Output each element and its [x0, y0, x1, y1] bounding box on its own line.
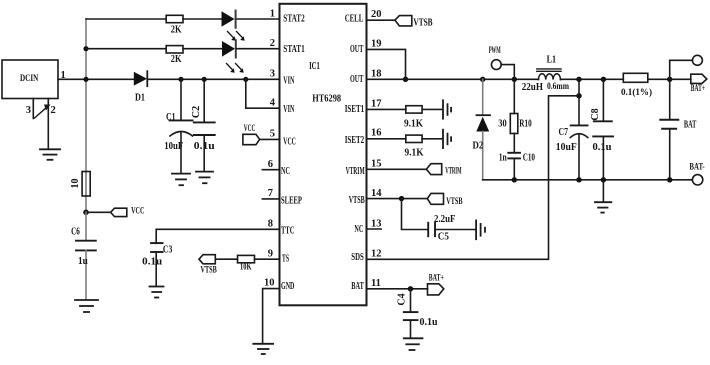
svg-text:SDS: SDS: [351, 252, 364, 263]
port (BAT+ terminal circle): [692, 55, 702, 65]
ground under DCIN pin2: [40, 149, 60, 160]
wire LED1 to IC pin1: [237, 18, 280, 20]
pin 6 stub: [262, 169, 279, 171]
resistor R6 9.1K: [406, 135, 422, 142]
svg-text:10: 10: [70, 179, 81, 189]
diode D1: [134, 71, 148, 86]
svg-text:VCC: VCC: [283, 136, 296, 147]
svg-text:3: 3: [26, 105, 31, 116]
wire pin17 ISET1 to R5: [367, 108, 406, 110]
svg-text:CELL: CELL: [345, 13, 364, 24]
svg-text:VTSB: VTSB: [446, 197, 463, 207]
svg-text:12: 12: [371, 249, 382, 260]
power flag VCC (pin5): [243, 134, 260, 144]
svg-text:BAT: BAT: [684, 119, 697, 130]
svg-text:2K: 2K: [171, 24, 182, 35]
power flag VTSB (pin14): [427, 193, 443, 204]
svg-text:30: 30: [498, 118, 506, 129]
svg-text:8: 8: [268, 219, 273, 230]
svg-text:BAT+: BAT+: [691, 84, 705, 94]
wire bottom rail: [483, 179, 693, 181]
capacitor C1 10uF: [170, 79, 193, 173]
svg-text:0.1u: 0.1u: [420, 317, 438, 328]
ground rotated (ISET1): [443, 100, 451, 118]
svg-text:10: 10: [264, 278, 275, 289]
svg-text:R10: R10: [519, 119, 531, 130]
power flag VTSB (TS): [199, 255, 215, 264]
ground under C6: [75, 300, 98, 312]
wire pin8 TTC to C3: [156, 229, 279, 242]
svg-text:C6: C6: [71, 226, 80, 237]
LED D4 (STAT1): [222, 40, 244, 73]
wire D1 cathode to IC pin3: [148, 78, 280, 80]
wire row1 to R1: [86, 18, 166, 20]
svg-text:20: 20: [371, 9, 382, 20]
wire pin12 SDS feedback: [367, 96, 580, 259]
node pin19/rail: [403, 77, 408, 82]
port PWM: [491, 60, 501, 70]
ground under C3: [150, 287, 164, 298]
svg-text:VTSB: VTSB: [201, 266, 218, 276]
node C8 tap: [601, 77, 606, 82]
node D2 tap: [480, 77, 485, 82]
power flag BAT+ (pin11): [428, 284, 444, 295]
svg-text:VTRIM: VTRIM: [346, 166, 365, 177]
battery BAT: [660, 79, 678, 180]
svg-text:9: 9: [268, 249, 273, 260]
wire R1 to LED1: [183, 18, 222, 20]
svg-text:TTC: TTC: [281, 225, 294, 236]
svg-text:22uH: 22uH: [522, 81, 544, 93]
power flag VTRIM: [426, 164, 441, 175]
capacitor C3 0.1u: [151, 243, 163, 286]
svg-text:NC: NC: [354, 224, 363, 235]
ground on bottom rail: [595, 180, 611, 213]
ground under C2: [196, 172, 213, 184]
svg-text:0.1u: 0.1u: [142, 256, 162, 267]
pin 7 stub: [262, 198, 279, 200]
svg-text:11: 11: [371, 278, 381, 289]
wire pin16 ISET2 to R6: [367, 138, 406, 140]
wire L1 to R11: [561, 78, 624, 80]
svg-text:2K: 2K: [171, 54, 182, 65]
svg-text:C2: C2: [191, 106, 202, 118]
diode D2: [476, 79, 490, 180]
svg-text:VIN: VIN: [283, 75, 295, 86]
port BAT- terminal circle: [692, 175, 702, 185]
node battery/rail: [667, 177, 672, 182]
svg-text:C10: C10: [523, 153, 535, 164]
svg-text:9.1K: 9.1K: [404, 118, 424, 129]
node C2 tap: [202, 77, 207, 82]
power flag BAT+ (right): [691, 74, 707, 83]
wire row2 to R2: [86, 48, 166, 50]
wire pin19 OUT down to rail: [367, 49, 406, 79]
resistor R10 30 (vertical): [510, 79, 518, 152]
IC U1 HT6298 body: [280, 4, 367, 306]
svg-text:BAT-: BAT-: [689, 162, 704, 172]
node C1 tap: [178, 77, 183, 82]
svg-text:6: 6: [268, 159, 273, 170]
connector J1 DCIN box: [2, 60, 58, 99]
svg-text:L1: L1: [547, 55, 557, 66]
svg-text:HT6298: HT6298: [312, 93, 341, 104]
capacitor C7 10uF: [570, 79, 588, 180]
node C5 tap: [399, 196, 404, 201]
wire pin14 VTSB to flag: [367, 198, 428, 200]
resistor R1 2K: [166, 15, 183, 22]
wire PWM to rail: [501, 65, 514, 80]
svg-text:18: 18: [371, 69, 382, 80]
svg-text:VTSB: VTSB: [349, 195, 365, 206]
wire R6 to ground (rotated): [422, 138, 442, 140]
wire LED2 to IC pin2: [237, 48, 280, 50]
capacitor C8 0.1u: [593, 79, 613, 180]
wire R4 to VTSB flag: [215, 258, 237, 260]
ground rotated (ISET2): [443, 130, 451, 148]
svg-text:19: 19: [371, 39, 382, 50]
wire node down to C5: [402, 199, 428, 230]
wire R2 to LED2: [183, 48, 222, 50]
node BAT+ branch: [667, 77, 672, 82]
svg-text:15: 15: [371, 158, 382, 169]
node C8/rail: [601, 177, 606, 182]
wire R11 to BAT+ node: [648, 78, 670, 80]
power flag VCC (left): [111, 208, 127, 216]
svg-text:STAT1: STAT1: [283, 44, 304, 55]
wire node up to port: [670, 60, 693, 79]
svg-text:VTSB: VTSB: [413, 17, 432, 28]
svg-text:D2: D2: [473, 140, 484, 151]
svg-text:ISET2: ISET2: [345, 135, 365, 146]
svg-text:ISET1: ISET1: [345, 104, 365, 115]
svg-text:9.1K: 9.1K: [405, 147, 425, 158]
svg-text:0.1(1%): 0.1(1%): [621, 87, 652, 98]
node row2 junction: [83, 46, 88, 51]
svg-text:DCIN: DCIN: [20, 74, 38, 84]
wire pin15 VTRIM to flag: [367, 168, 427, 170]
svg-text:OUT: OUT: [350, 74, 364, 85]
node SDS joint: [576, 93, 581, 98]
svg-text:10uF: 10uF: [556, 142, 577, 153]
svg-text:5: 5: [270, 128, 275, 139]
svg-text:16: 16: [371, 128, 382, 139]
svg-text:3: 3: [270, 69, 275, 80]
ground rotated (C5): [476, 220, 485, 239]
wire vertical bus x86 (rows 1-3 to VCC node): [85, 19, 87, 212]
svg-text:VCC: VCC: [131, 206, 144, 216]
svg-text:D1: D1: [135, 92, 145, 103]
wire DCIN pin1 to D1 anode: [58, 78, 134, 80]
svg-text:OUT: OUT: [350, 44, 364, 55]
wire R5 to ground (rotated): [422, 108, 442, 110]
svg-text:C1: C1: [166, 112, 176, 123]
switch arrow (jack contact): [35, 105, 51, 119]
svg-text:1n: 1n: [499, 153, 507, 164]
svg-text:1u: 1u: [78, 256, 88, 267]
capacitor C10 1n: [508, 153, 520, 180]
wire pin18 OUT rail to L1: [367, 78, 539, 80]
ground under C4: [404, 338, 423, 350]
svg-text:GND: GND: [281, 281, 294, 292]
LED D3 (STAT2): [222, 11, 245, 41]
node C10/rail: [512, 177, 517, 182]
svg-text:PWM: PWM: [489, 46, 501, 56]
wire pin10 GND to ground: [263, 289, 280, 343]
svg-text:0.6mm: 0.6mm: [547, 82, 569, 92]
wire pin9 TS to R4: [255, 258, 280, 260]
svg-text:BAT+: BAT+: [429, 274, 444, 284]
svg-text:2.2uF: 2.2uF: [434, 214, 456, 225]
capacitor C4 0.1u: [404, 289, 418, 338]
svg-text:VIN: VIN: [283, 104, 295, 115]
svg-text:1: 1: [270, 9, 275, 20]
wire pin20 CELL to flag: [367, 19, 395, 21]
svg-text:C5: C5: [438, 231, 449, 242]
svg-text:10K: 10K: [240, 263, 252, 273]
resistor R11 0.1(1%): [623, 73, 648, 82]
inductor L1: [537, 69, 561, 80]
node VCC junction: [83, 210, 89, 216]
pin 2 stub (DCIN jack): [47, 99, 49, 149]
ground under C1: [172, 174, 190, 186]
pin 3 stub (DCIN jack): [32, 99, 34, 119]
wire pin5 VCC flag: [260, 138, 280, 140]
node C4 tap: [408, 286, 413, 291]
svg-text:0.1u: 0.1u: [593, 142, 612, 153]
resistor R4 10K: [238, 255, 255, 262]
power flag VTSB (pin20): [395, 16, 412, 26]
svg-text:VCC: VCC: [244, 124, 256, 134]
svg-text:C7: C7: [559, 127, 569, 138]
svg-text:10uF: 10uF: [164, 141, 183, 152]
svg-text:2: 2: [270, 38, 275, 49]
wire to IC pin4: [246, 79, 280, 108]
resistor R5 9.1K: [406, 106, 422, 113]
svg-text:IC1: IC1: [309, 61, 320, 72]
svg-text:13: 13: [371, 218, 382, 229]
wire node to BAT+ flag: [670, 78, 691, 80]
svg-text:14: 14: [371, 188, 382, 199]
svg-text:TS: TS: [282, 253, 289, 264]
svg-text:BAT: BAT: [351, 281, 364, 292]
svg-text:C8: C8: [590, 108, 601, 120]
svg-text:STAT2: STAT2: [283, 13, 304, 24]
resistor R2 2K: [166, 46, 183, 53]
wire C5 to ground (rotated): [435, 229, 475, 231]
resistor R3 10 (vertical): [82, 172, 90, 197]
svg-text:SLEEP: SLEEP: [281, 196, 302, 207]
capacitor C2 0.1u: [194, 79, 215, 171]
node PWM/R10 tap: [512, 77, 517, 82]
svg-text:C4: C4: [397, 293, 408, 305]
svg-text:4: 4: [270, 98, 276, 109]
svg-text:17: 17: [371, 99, 382, 110]
svg-text:C3: C3: [163, 244, 172, 255]
node C7/SDS tap: [576, 77, 581, 82]
svg-text:7: 7: [268, 188, 273, 199]
capacitor C5 2.2uF: [428, 223, 435, 236]
node row3 junction: [83, 77, 88, 82]
ground at pin10: [253, 344, 273, 354]
wire node to VCC flag: [86, 211, 111, 213]
svg-text:NC: NC: [281, 166, 290, 177]
wire pin11 BAT to flag: [367, 288, 428, 290]
svg-text:2: 2: [51, 105, 56, 116]
pin 13 stub: [367, 228, 382, 230]
capacitor C6 1u: [76, 212, 96, 299]
svg-text:0.1u: 0.1u: [194, 141, 215, 152]
node C7/rail: [576, 177, 581, 182]
node VIN pin4 tap: [243, 77, 248, 82]
svg-text:VTRIM: VTRIM: [445, 166, 461, 176]
